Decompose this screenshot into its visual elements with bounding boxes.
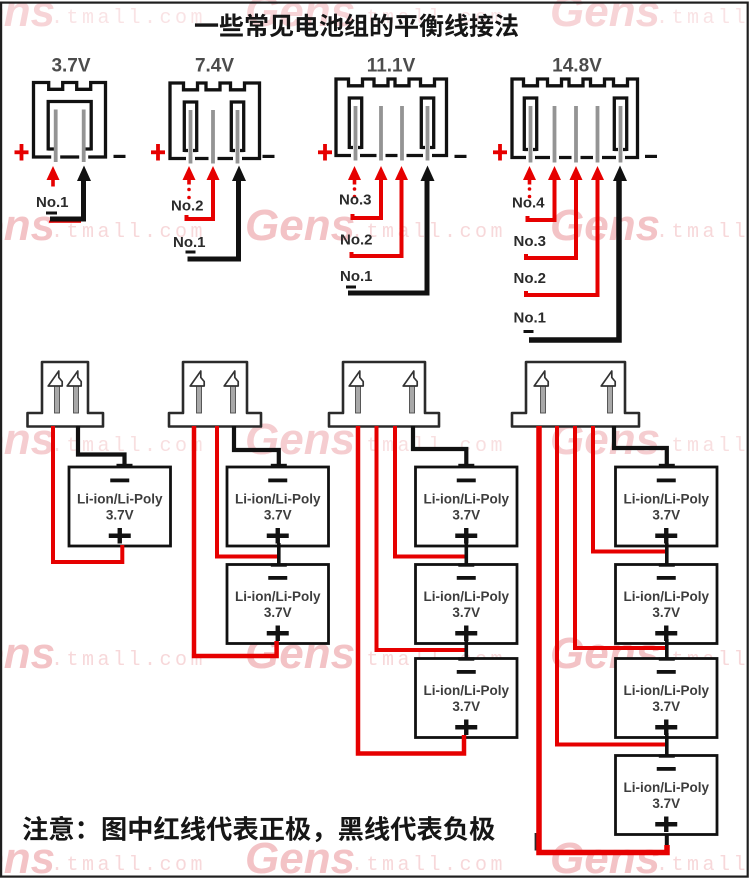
svg-text:Gens: Gens	[0, 629, 55, 678]
battery cell B3c (Li-ion/Li-Poly 3.7V)	[416, 659, 518, 738]
P4 (4S) contact pin 1 (arrow symbol)	[534, 371, 548, 413]
node: series link B4b plus to B4c minus	[659, 639, 675, 661]
P1 (1S) contact pin 1 (arrow symbol)	[48, 371, 62, 413]
svg-text:3.7V: 3.7V	[652, 605, 680, 620]
wire: P4 negative lead to B4a minus (black)	[614, 426, 675, 467]
J2 7.4V pin 1	[189, 110, 193, 164]
svg-text:Li-ion/Li-Poly: Li-ion/Li-Poly	[235, 589, 321, 604]
J4 14.8V pin 5	[619, 106, 623, 163]
svg-text:Li-ion/Li-Poly: Li-ion/Li-Poly	[624, 780, 710, 795]
plus terminal mark J1	[15, 144, 29, 161]
wire: P3 positive lead to B3c plus (red)	[358, 426, 464, 754]
wire: J4 negative lead No.1 (black, pin5)	[529, 166, 627, 341]
node: series link B4c plus to B4d minus	[659, 733, 675, 758]
wire: P4 balance lead No.2 to junction3 (red)	[557, 426, 665, 745]
battery cell B4c (Li-ion/Li-Poly 3.7V)	[616, 659, 718, 738]
svg-text:.tmall.com: .tmall.com	[656, 7, 750, 30]
wire: J1 negative lead No.1 (black, pin2)	[50, 166, 91, 220]
node: B4d plus stub (black)	[665, 834, 669, 850]
svg-text:No.1: No.1	[340, 268, 373, 285]
wire: J1 positive return underlay (red)	[49, 221, 81, 223]
svg-text:Gens: Gens	[550, 0, 660, 36]
J3 11.1V pin 4	[426, 106, 430, 161]
svg-text:Gens: Gens	[0, 834, 55, 879]
J4 14.8V pin 4	[596, 106, 600, 163]
svg-text:.tmall.com: .tmall.com	[51, 854, 206, 877]
terminal dash No.1 (J3)	[346, 286, 356, 289]
node: series link B3a plus to B3b minus	[458, 543, 474, 567]
svg-text:7.4V: 7.4V	[195, 56, 234, 77]
terminal dash No.1 (J1)	[46, 212, 57, 215]
svg-text:Li-ion/Li-Poly: Li-ion/Li-Poly	[624, 492, 710, 507]
wire: J4 balance lead No.3 (red, pin3)	[526, 166, 583, 258]
svg-text:.tmall.com: .tmall.com	[51, 7, 206, 30]
wire: J3 balance lead No.2 (red, pin3)	[352, 166, 409, 256]
wire: J4 balance lead No.4 (red, pin2)	[528, 166, 562, 220]
P3 (3S) contact pin 2 (arrow symbol)	[403, 371, 417, 413]
J4 14.8V pin 2	[553, 106, 557, 163]
P2 (2S) contact pin 2 (arrow symbol)	[224, 371, 238, 413]
svg-text:.tmall.com: .tmall.com	[656, 435, 750, 458]
svg-text:3.7V: 3.7V	[264, 508, 292, 523]
svg-text:Li-ion/Li-Poly: Li-ion/Li-Poly	[235, 492, 321, 507]
wire: P2 balance lead to B2a/B2b junction (red)	[217, 426, 277, 557]
svg-text:Li-ion/Li-Poly: Li-ion/Li-Poly	[424, 492, 510, 507]
connector J1 3.7V housing	[34, 83, 106, 160]
wire: J1 positive arrow (red, pin1)	[47, 166, 60, 187]
connector plug P4 (4S) housing	[512, 362, 639, 427]
svg-text:3.7V: 3.7V	[264, 605, 292, 620]
plus terminal mark J3	[318, 144, 332, 161]
wire: J3 negative lead No.1 (black, pin4)	[348, 166, 435, 294]
wire: P4 positive lead to B4d plus (red)	[539, 426, 667, 853]
J4 14.8V pin 3	[574, 106, 578, 163]
svg-text:Gens: Gens	[550, 201, 660, 250]
minus terminal mark J4	[645, 155, 657, 158]
wire: P3 balance lead No.2 to junction2 (red)	[377, 426, 465, 650]
J1 3.7V pin 2	[82, 110, 86, 163]
svg-text:Li-ion/Li-Poly: Li-ion/Li-Poly	[77, 492, 163, 507]
battery cell B2a (Li-ion/Li-Poly 3.7V)	[227, 467, 329, 546]
minus terminal mark J3	[455, 155, 467, 158]
plus terminal mark J4	[493, 144, 507, 161]
svg-text:No.2: No.2	[514, 270, 547, 287]
svg-text:.tmall.com: .tmall.com	[656, 221, 750, 244]
svg-text:Gens: Gens	[550, 834, 660, 879]
J3 11.1V pin 1	[354, 106, 358, 161]
connector J3 11.1V housing	[336, 79, 447, 158]
svg-text:Li-ion/Li-Poly: Li-ion/Li-Poly	[424, 589, 510, 604]
wire: J4 positive arrow (red, pin1)	[523, 166, 536, 198]
svg-text:3.7V: 3.7V	[51, 56, 90, 77]
svg-text:No.1: No.1	[36, 194, 69, 211]
minus terminal mark J1	[114, 155, 126, 158]
svg-text:.tmall.com: .tmall.com	[656, 854, 750, 877]
P2 (2S) contact pin 1 (arrow symbol)	[190, 371, 204, 413]
connector J2 7.4V housing	[170, 83, 260, 161]
battery cell B1 (Li-ion/Li-Poly 3.7V)	[69, 467, 171, 546]
svg-text:Gens: Gens	[0, 0, 55, 36]
svg-text:No.3: No.3	[514, 233, 547, 250]
P3 (3S) contact pin 1 (arrow symbol)	[349, 371, 363, 413]
svg-text:3.7V: 3.7V	[652, 699, 680, 714]
svg-text:No.3: No.3	[339, 192, 372, 209]
svg-text:14.8V: 14.8V	[552, 56, 602, 77]
connector plug P2 (2S) housing	[169, 362, 261, 427]
J3 11.1V pin 3	[400, 106, 404, 161]
node: series link B3b plus to B3c minus	[458, 639, 474, 661]
J4 14.8V pin 1	[529, 106, 533, 163]
note text	[23, 816, 495, 842]
J2 7.4V pin 3	[236, 110, 240, 164]
wire: J2 positive arrow (red, pin1)	[183, 166, 196, 199]
terminal dash No.1 (J4)	[524, 330, 534, 333]
battery cell B3b (Li-ion/Li-Poly 3.7V)	[416, 565, 518, 644]
J3 11.1V pin 2	[379, 106, 383, 161]
P1 (1S) contact pin 2 (arrow symbol)	[67, 371, 81, 413]
wire: P4 balance lead No.3 to junction2 (red)	[575, 426, 665, 648]
svg-text:.tmall.com: .tmall.com	[51, 649, 206, 672]
wire: P1 negative lead to B1 minus (black)	[78, 426, 133, 467]
node: series link B4a plus to B4b minus	[659, 543, 675, 567]
svg-text:11.1V: 11.1V	[367, 56, 416, 77]
wire: J3 balance lead No.3 (red, pin2)	[353, 166, 388, 218]
minus terminal mark J2	[263, 155, 275, 158]
wire: P3 balance lead No.3 to junction1 (red)	[395, 426, 465, 557]
terminal dash No.1 (J2)	[186, 251, 196, 254]
battery cell B4d (Li-ion/Li-Poly 3.7V)	[616, 756, 718, 835]
battery cell B3a (Li-ion/Li-Poly 3.7V)	[416, 467, 518, 546]
node: series link B2a plus to B2b minus	[271, 543, 287, 567]
svg-text:.tmall.com: .tmall.com	[351, 854, 506, 877]
wire: J4 balance lead No.2 (red, pin4)	[526, 166, 604, 295]
wire: P3 negative lead to B3a minus (black)	[413, 426, 474, 467]
svg-text:No.4: No.4	[512, 195, 545, 212]
wire: J2 negative lead No.1 (black, pin3)	[188, 166, 247, 260]
svg-text:Li-ion/Li-Poly: Li-ion/Li-Poly	[624, 683, 710, 698]
svg-text:No.2: No.2	[340, 232, 373, 249]
plus terminal mark J2	[151, 144, 165, 161]
wire: P4 balance lead No.4 to junction1 (red)	[593, 426, 665, 552]
svg-text:.tmall.com: .tmall.com	[351, 435, 506, 458]
svg-text:Li-ion/Li-Poly: Li-ion/Li-Poly	[624, 589, 710, 604]
svg-text:No.2: No.2	[171, 198, 204, 215]
connector plug P3 (3S) housing	[329, 362, 439, 427]
connector J4 14.8V housing	[512, 79, 638, 160]
wire stub: faint black remnant left of P4 positive bend	[535, 833, 538, 851]
svg-text:Li-ion/Li-Poly: Li-ion/Li-Poly	[424, 683, 510, 698]
svg-text:3.7V: 3.7V	[452, 605, 480, 620]
wire: P2 negative lead to B2a minus (black)	[234, 426, 287, 467]
J1 3.7V pin 1	[54, 110, 58, 163]
svg-text:3.7V: 3.7V	[452, 699, 480, 714]
battery cell B4b (Li-ion/Li-Poly 3.7V)	[616, 565, 718, 644]
svg-text:No.1: No.1	[173, 234, 206, 251]
svg-text:No.1: No.1	[514, 310, 547, 327]
wire: J3 positive arrow (red, pin1)	[348, 166, 361, 198]
battery cell B4a (Li-ion/Li-Poly 3.7V)	[616, 467, 718, 546]
J2 7.4V pin 2	[211, 110, 215, 164]
svg-text:3.7V: 3.7V	[452, 508, 480, 523]
wire: J2 balance lead No.2 (red, pin2)	[187, 166, 220, 219]
svg-text:.tmall.com: .tmall.com	[51, 435, 206, 458]
wire: P1 positive lead to B1 plus (red)	[53, 426, 122, 562]
battery cell B2b (Li-ion/Li-Poly 3.7V)	[227, 565, 329, 644]
svg-text:3.7V: 3.7V	[106, 508, 134, 523]
wire: P2 positive lead to B2b plus (red)	[194, 426, 277, 656]
connector plug P1 (1S) housing	[28, 362, 104, 427]
svg-text:3.7V: 3.7V	[652, 508, 680, 523]
title text	[195, 13, 518, 37]
P4 (4S) contact pin 2 (arrow symbol)	[601, 371, 615, 413]
svg-text:3.7V: 3.7V	[652, 796, 680, 811]
